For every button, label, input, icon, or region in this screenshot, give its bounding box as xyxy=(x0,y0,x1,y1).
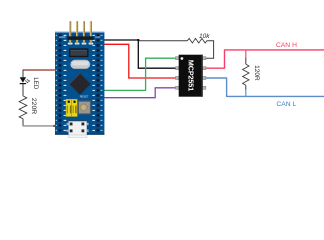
wire LED anode lead xyxy=(22,70,24,78)
svg-text:CAN H: CAN H xyxy=(276,42,297,49)
resistor R2 bottom lead xyxy=(245,85,247,90)
resistor R2 120R top lead xyxy=(245,58,247,64)
LED D1 symbol xyxy=(20,77,30,84)
resistor R1 10k left lead xyxy=(138,40,187,42)
reset button SW1 xyxy=(78,101,91,115)
SWD header base xyxy=(67,36,93,40)
U1 pin 6 CANL xyxy=(203,76,206,79)
wire red VDD board to MCP2551 pin3 xyxy=(100,44,176,78)
U1 pin 1 TXD xyxy=(176,57,179,60)
wire 3V3 board to LED (brick red) xyxy=(23,69,56,71)
U1 pin 5 VREF xyxy=(203,86,206,89)
resistor R3 220R xyxy=(19,96,27,119)
resistor R1 10k xyxy=(187,38,207,43)
boot jumpers J1 J2 (yellow) xyxy=(66,99,77,116)
node TX pin tip xyxy=(99,89,101,91)
silkscreen specks near header xyxy=(59,36,66,39)
U1 pin 4 RXD xyxy=(176,86,179,89)
node CANH/R2 junction xyxy=(245,50,247,59)
node VDD pin tip xyxy=(99,43,101,45)
wire purple RX board to MCP2551 pin4 xyxy=(100,88,176,98)
node GND junction xyxy=(137,39,139,41)
svg-text:CAN L: CAN L xyxy=(276,101,296,108)
U1 pin 3 VDD xyxy=(176,76,179,79)
node RX pin tip xyxy=(99,97,101,99)
svg-text:RESET: RESET xyxy=(80,95,89,99)
wire CANL net (blue) xyxy=(204,78,324,96)
wire green TX board to MCP2551 pin1 xyxy=(100,58,176,90)
wire black GND board to MCP2551 pin2 xyxy=(100,40,176,68)
SWD header pins (gold) xyxy=(69,21,92,44)
node CANL/R2 junction xyxy=(245,90,247,97)
Blue Pill board U2 xyxy=(55,21,104,138)
wire CANH net (pink) xyxy=(204,50,324,68)
crystal Y1 xyxy=(70,60,90,69)
svg-text:120R: 120R xyxy=(253,65,260,81)
wire GND return to board (gray) xyxy=(23,125,56,127)
U1 pin 2 VSS xyxy=(176,67,179,70)
U1 pin 8 RS xyxy=(203,57,206,60)
svg-text:10k: 10k xyxy=(199,33,210,40)
node GND pin tip xyxy=(99,39,101,41)
U1 pin 7 CANH xyxy=(203,67,206,70)
component IC1 (black rect near top) xyxy=(69,48,89,57)
MCU diamond STM32 xyxy=(69,73,90,94)
micro USB connector xyxy=(67,121,89,138)
svg-text:MCP2551: MCP2551 xyxy=(186,60,194,91)
resistor R3 bottom lead xyxy=(22,119,24,126)
connector cap gray wire xyxy=(53,125,56,127)
resistor R2 120R xyxy=(243,64,249,85)
LED cathode lead xyxy=(22,84,24,96)
resistor R1 right lead to pin8 xyxy=(204,41,214,59)
U1 body xyxy=(179,55,203,97)
svg-text:LED: LED xyxy=(32,77,39,89)
U1 pin1 dot xyxy=(181,57,184,60)
SWD header pads xyxy=(68,43,93,45)
svg-text:220R: 220R xyxy=(30,98,37,114)
board PCB xyxy=(55,32,104,135)
transceiver U1 MCP2551 xyxy=(176,55,206,97)
